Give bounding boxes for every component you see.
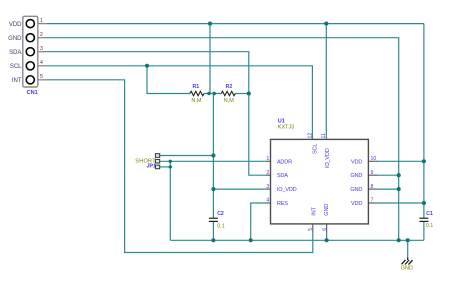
svg-text:KXTJ3: KXTJ3	[278, 125, 295, 131]
svg-text:GND: GND	[8, 36, 22, 42]
svg-text:2: 2	[40, 32, 43, 38]
node JP1 mid	[169, 160, 172, 163]
wire SDA row	[47, 52, 267, 176]
svg-text:N.M: N.M	[191, 98, 202, 104]
wire pin7 VDD	[378, 202, 424, 204]
wire JP1 middle pad to ADDR pin	[160, 160, 267, 162]
node pin8/GND	[397, 187, 401, 191]
node pin10/VDD	[422, 159, 426, 163]
svg-text:5: 5	[40, 74, 43, 80]
svg-text:R2: R2	[226, 84, 233, 90]
svg-text:5: 5	[308, 228, 314, 231]
wire JP1 vertical to GND bus	[169, 161, 171, 240]
svg-text:0.1: 0.1	[217, 224, 225, 230]
svg-text:C1: C1	[426, 211, 433, 217]
svg-text:VDD: VDD	[351, 201, 362, 207]
node VDD/R junction	[208, 22, 212, 26]
svg-text:ADDR: ADDR	[277, 159, 292, 165]
svg-text:SDA: SDA	[277, 173, 288, 179]
svg-text:INT: INT	[312, 207, 318, 216]
svg-text:3: 3	[40, 46, 43, 52]
wire GND row	[47, 38, 399, 241]
svg-text:VDD: VDD	[351, 159, 362, 165]
svg-text:8: 8	[371, 184, 374, 190]
svg-text:INT: INT	[12, 78, 22, 84]
svg-text:SCL: SCL	[10, 64, 22, 70]
svg-text:GND: GND	[350, 173, 362, 179]
svg-text:RES: RES	[277, 201, 288, 207]
node R2 right SDA	[247, 91, 251, 95]
svg-text:1: 1	[266, 156, 269, 162]
resistor R2	[221, 84, 235, 104]
node IO_VDD/C2	[211, 187, 215, 191]
svg-text:JP1: JP1	[147, 163, 156, 169]
svg-text:9: 9	[371, 170, 374, 176]
svg-text:3: 3	[266, 184, 269, 190]
svg-text:SDA: SDA	[9, 50, 21, 56]
svg-text:IO_VDD: IO_VDD	[277, 187, 297, 193]
wire SCL branch to R1	[147, 66, 190, 94]
wire VDD top to IO_VDD pin11	[325, 24, 327, 140]
svg-text:VDD: VDD	[9, 22, 22, 28]
node C2/bus	[211, 238, 215, 242]
node GNDrow/bus	[397, 238, 401, 242]
wire R2 right lead to SDA	[235, 93, 249, 95]
wire JP1 top pad to VDD vertical	[160, 155, 214, 157]
svg-text:GND: GND	[401, 265, 413, 271]
svg-text:IO_VDD: IO_VDD	[325, 148, 331, 168]
svg-text:N.M: N.M	[224, 98, 235, 104]
wire GND symbol drop	[407, 240, 409, 258]
node pin6/bus	[325, 238, 329, 242]
wire JP1 bottom pad stub	[160, 166, 171, 168]
pin names	[277, 144, 362, 216]
wire VDD drop to R junction	[209, 24, 211, 94]
svg-text:U1: U1	[278, 119, 285, 125]
svg-text:GND: GND	[350, 187, 362, 193]
resistor R1	[190, 84, 204, 104]
svg-text:R1: R1	[193, 84, 200, 90]
wire IO_VDD pin3 to C2 net	[213, 188, 267, 190]
svg-text:GND: GND	[324, 204, 330, 216]
wire pin9 GND	[378, 174, 399, 176]
wire VDD right vertical through C1	[423, 24, 425, 241]
capacitor C2	[209, 211, 225, 229]
wire IC pin6 GND to bus	[326, 232, 328, 240]
node JP1 bottom	[169, 165, 172, 168]
op IC U1 KXTJ3	[266, 119, 377, 233]
wire SCL row	[47, 66, 312, 140]
svg-text:CN1: CN1	[27, 90, 38, 96]
svg-text:SCL: SCL	[312, 144, 318, 154]
svg-text:7: 7	[371, 198, 374, 204]
svg-text:0.1: 0.1	[426, 223, 434, 229]
svg-text:10: 10	[371, 156, 377, 162]
svg-text:4: 4	[266, 198, 269, 204]
node R2 left	[213, 92, 216, 95]
pin numbers	[266, 133, 376, 231]
node JP1 top/VDD	[211, 153, 215, 157]
pin stubs gray	[267, 161, 378, 232]
svg-text:4: 4	[40, 60, 43, 66]
capacitor C1	[419, 211, 433, 229]
node VDD/IO_VDD top	[324, 22, 328, 26]
wire pin8 GND	[378, 188, 399, 190]
wire pin10 VDD	[378, 160, 424, 162]
svg-text:1: 1	[40, 18, 43, 24]
node pin7/VDD	[422, 201, 426, 205]
node RES/bus	[249, 238, 253, 242]
svg-text:11: 11	[321, 133, 327, 138]
ground	[401, 258, 413, 272]
svg-text:12: 12	[307, 133, 313, 139]
wire INT row	[47, 80, 313, 253]
svg-text:C2: C2	[217, 211, 224, 217]
wire VDD row	[47, 23, 424, 25]
wire GND bus	[170, 239, 424, 241]
node GNDsym/bus	[406, 238, 410, 242]
wire VDD/IO_VDD vertical through C2	[212, 94, 214, 241]
svg-text:6: 6	[322, 228, 328, 231]
svg-text:2: 2	[266, 170, 269, 176]
node SCL/R1	[145, 64, 149, 68]
wire R1-R2 junction row	[204, 93, 221, 95]
node R1 right	[207, 92, 210, 95]
wire RES pin4 to GND bus	[251, 203, 267, 240]
jumper JP1	[135, 154, 159, 170]
node pin9/GND	[397, 173, 401, 177]
connector CN1	[8, 16, 47, 96]
